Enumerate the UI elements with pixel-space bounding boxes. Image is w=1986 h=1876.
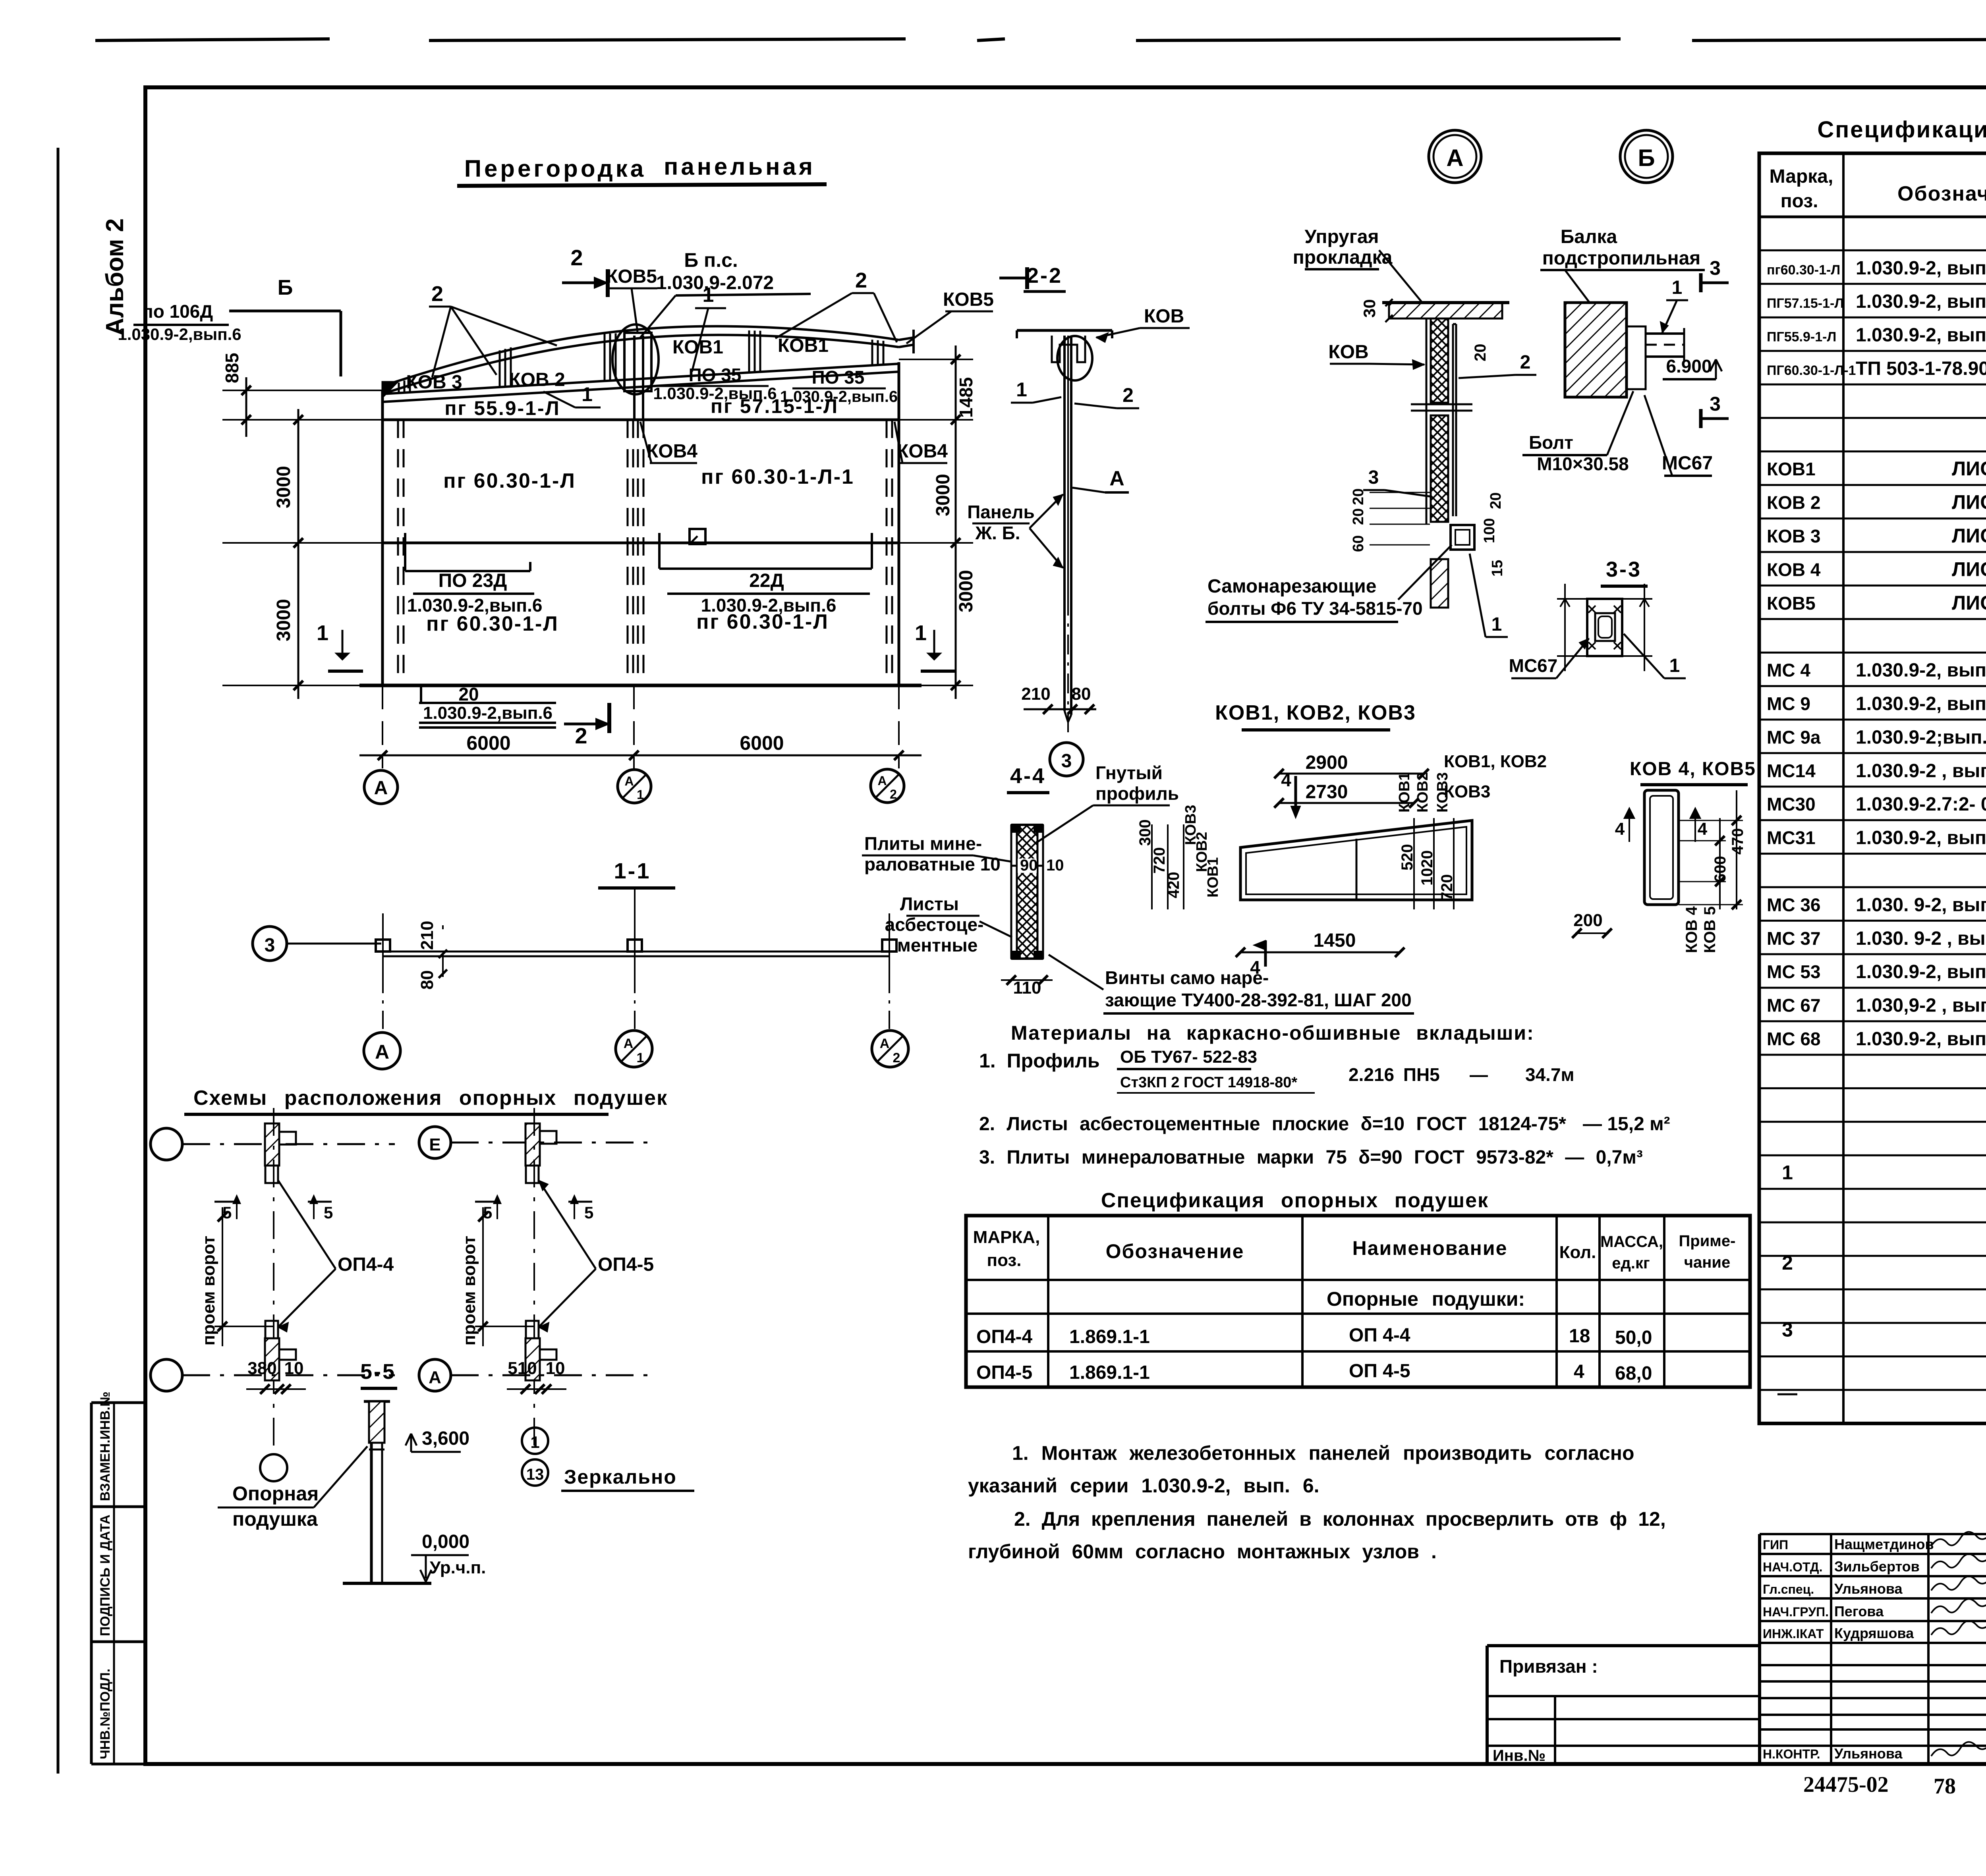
svg-text:20: 20 — [1350, 508, 1367, 525]
svg-text:МС 68: МС 68 — [1767, 1029, 1820, 1049]
elevation dimensions — [222, 345, 977, 804]
svg-text:ОП4-4: ОП4-4 — [976, 1326, 1033, 1347]
svg-text:Альбом 2: Альбом 2 — [101, 218, 129, 336]
svg-text:Ж. Б.: Ж. Б. — [975, 523, 1020, 543]
svg-text:Схемы расположения опорн: Схемы расположения опорных подушек — [193, 1087, 668, 1110]
svg-text:асбестоце-: асбестоце- — [885, 914, 984, 935]
truss bottom chord — [383, 364, 899, 394]
svg-text:ВЗАМЕН.ИНВ.№: ВЗАМЕН.ИНВ.№ — [98, 1392, 113, 1501]
connector МС on panel — [376, 940, 390, 952]
svg-text:3. Плиты минераловатные: 3. Плиты минераловатные марки 75 δ=90 ГО… — [979, 1147, 1643, 1168]
svg-text:4-4: 4-4 — [1010, 764, 1046, 788]
svg-text:ОП 4-4: ОП 4-4 — [1349, 1325, 1410, 1346]
svg-text:ОП4-4: ОП4-4 — [338, 1254, 394, 1275]
connection plan view — [1587, 599, 1622, 656]
scheme 2 (ОП4-5) — [419, 1108, 694, 1491]
svg-text:пг 60.30-1-Л: пг 60.30-1-Л — [443, 469, 576, 492]
svg-text:ПО 35: ПО 35 — [689, 365, 742, 385]
svg-text:380: 380 — [247, 1359, 276, 1378]
svg-text:болты Ф6 ТУ 34-5815-70: болты Ф6 ТУ 34-5815-70 — [1207, 598, 1423, 619]
axis circle А/2 — [871, 769, 904, 803]
svg-text:2: 2 — [431, 282, 443, 306]
svg-text:4: 4 — [1574, 1361, 1584, 1382]
svg-text:ОБ ТУ67- 522-83: ОБ ТУ67- 522-83 — [1120, 1047, 1257, 1067]
elevation drawing: панельная перегородка — [359, 324, 922, 685]
wall strip cross-hatched — [1017, 825, 1037, 959]
svg-text:ТП 503-1-78.90 -КЖ.И.25: ТП 503-1-78.90 -КЖ.И.25 — [1856, 358, 1986, 379]
svg-text:пг 60.30-1-Л: пг 60.30-1-Л — [426, 612, 559, 635]
svg-text:Б: Б — [278, 276, 293, 299]
svg-text:ПОДПИСЬ И ДАТА: ПОДПИСЬ И ДАТА — [98, 1515, 113, 1636]
svg-text:1: 1 — [530, 1433, 539, 1451]
svg-text:Опорные подушки:: Опорные подушки: — [1327, 1288, 1525, 1310]
svg-text:КОВ5: КОВ5 — [606, 266, 657, 287]
svg-text:Инв.№: Инв.№ — [1493, 1747, 1546, 1764]
svg-text:по 106Д: по 106Д — [142, 301, 213, 322]
panel in plan — [383, 951, 889, 953]
svg-text:КОВ 3: КОВ 3 — [1767, 526, 1820, 546]
svg-text:50,0: 50,0 — [1615, 1327, 1652, 1348]
svg-text:подушка: подушка — [232, 1508, 318, 1530]
svg-text:ОП4-5: ОП4-5 — [598, 1254, 654, 1275]
svg-text:прокладка: прокладка — [1293, 247, 1393, 268]
svg-text:КОВ: КОВ — [1144, 306, 1184, 327]
svg-text:Ст3КП 2 ГОСТ 14918-80*: Ст3КП 2 ГОСТ 14918-80* — [1120, 1074, 1297, 1091]
svg-text:НАЧ.ГРУП.: НАЧ.ГРУП. — [1763, 1605, 1829, 1619]
КОВ4 КОВ5 drawing — [1572, 759, 1756, 953]
svg-text:ед.кг: ед.кг — [1612, 1255, 1650, 1272]
svg-text:подстропильная: подстропильная — [1542, 248, 1701, 269]
svg-text:Б: Б — [1638, 145, 1655, 171]
svg-text:МС 37: МС 37 — [1767, 928, 1820, 949]
svg-text:13: 13 — [526, 1466, 544, 1483]
svg-text:Наименование: Наименование — [1352, 1237, 1508, 1259]
circle Б — [1620, 130, 1673, 183]
svg-text:Ульянова: Ульянова — [1834, 1581, 1903, 1597]
svg-text:1: 1 — [1672, 277, 1683, 298]
svg-text:Е: Е — [429, 1135, 440, 1154]
elevation labels — [118, 245, 1027, 748]
bracket ПО 23Д — [404, 533, 406, 571]
svg-text:20: 20 — [1350, 488, 1367, 505]
svg-text:2: 2 — [1782, 1252, 1793, 1274]
svg-text:1: 1 — [1016, 378, 1027, 401]
svg-text:А: А — [1109, 467, 1124, 490]
svg-text:МАРКА,: МАРКА, — [973, 1228, 1040, 1247]
below-frame annotations — [1803, 1771, 1986, 1799]
svg-text:—: — — [1777, 1382, 1797, 1404]
svg-text:1.030.9-2, вып.7, часть 2: 1.030.9-2, вып.7, часть 2 — [1856, 1029, 1986, 1050]
svg-text:проем ворот: проем ворот — [460, 1236, 479, 1346]
svg-text:МС 4: МС 4 — [1767, 660, 1810, 681]
support pads table text — [973, 1228, 1736, 1384]
svg-text:68,0: 68,0 — [1615, 1363, 1652, 1384]
svg-text:3: 3 — [1368, 467, 1379, 488]
svg-text:1.030.9-2, вып.1: 1.030.9-2, вып.1 — [1856, 258, 1986, 279]
svg-text:110: 110 — [1013, 978, 1041, 998]
svg-text:Зеркально: Зеркально — [564, 1466, 677, 1488]
svg-text:КОВ4: КОВ4 — [897, 441, 948, 462]
svg-text:34.7м: 34.7м — [1525, 1064, 1575, 1085]
svg-text:1. Монтаж железобетонных: 1. Монтаж железобетонных панелей произво… — [1012, 1442, 1634, 1464]
svg-text:панельная: панельная — [664, 153, 815, 180]
svg-text:ПО 23Д: ПО 23Д — [439, 570, 507, 591]
svg-text:3000: 3000 — [273, 466, 294, 508]
svg-text:1: 1 — [1491, 614, 1502, 635]
connection plate and beam — [1627, 326, 1646, 389]
connector МС on panel — [882, 940, 896, 952]
svg-text:КОВ 2: КОВ 2 — [509, 369, 565, 390]
axis circle А — [364, 770, 398, 804]
привязан box — [1487, 1646, 1760, 1764]
svg-text:3: 3 — [265, 935, 275, 956]
svg-text:Материалы на каркасно-обш: Материалы на каркасно-обшивные вкладыши: — [1011, 1022, 1534, 1044]
section 2-2 — [967, 264, 1190, 776]
svg-text:А: А — [880, 1036, 890, 1051]
svg-text:885: 885 — [222, 353, 242, 383]
svg-text:Гнутый: Гнутый — [1095, 762, 1163, 783]
svg-text:КОВ 5: КОВ 5 — [1701, 906, 1719, 953]
svg-text:Привязан :: Привязан : — [1499, 1656, 1598, 1677]
svg-text:зающие ТУ400-28-392-81, ШАГ 20: зающие ТУ400-28-392-81, ШАГ 200 — [1105, 990, 1412, 1010]
svg-text:1.869.1-1: 1.869.1-1 — [1069, 1326, 1150, 1347]
svg-text:поз.: поз. — [987, 1251, 1022, 1270]
svg-text:Плиты мине-: Плиты мине- — [864, 833, 982, 854]
svg-text:2: 2 — [893, 1050, 900, 1065]
svg-text:2-2: 2-2 — [1027, 264, 1063, 288]
svg-text:А: А — [1446, 145, 1463, 171]
svg-text:24475-02: 24475-02 — [1803, 1772, 1889, 1797]
svg-text:Н.КОНТР.: Н.КОНТР. — [1763, 1747, 1820, 1761]
svg-text:1.030.9-2, вып.7, часть 2: 1.030.9-2, вып.7, часть 2 — [1856, 828, 1986, 849]
svg-text:15: 15 — [1489, 560, 1506, 577]
signature table grid — [1760, 1534, 1986, 1764]
main title — [457, 153, 827, 186]
detail А: упругая прокладка — [1206, 130, 1536, 637]
svg-text:4: 4 — [1698, 819, 1708, 839]
truss top chord arc — [383, 326, 899, 386]
svg-text:КОВ3: КОВ3 — [1434, 772, 1451, 813]
svg-text:20: 20 — [1488, 492, 1504, 509]
svg-text:20: 20 — [1472, 344, 1489, 362]
support pads table grid — [966, 1216, 1750, 1387]
svg-text:Б п.с.: Б п.с. — [684, 249, 738, 271]
svg-text:1: 1 — [1782, 1162, 1793, 1184]
big table rows text — [1767, 222, 1986, 1418]
svg-text:Панель: Панель — [967, 502, 1035, 522]
svg-text:А: А — [374, 778, 388, 799]
svg-text:поз.: поз. — [1781, 191, 1818, 212]
svg-text:МС31: МС31 — [1767, 828, 1816, 848]
svg-text:3: 3 — [1061, 751, 1072, 772]
circle А — [1429, 130, 1481, 183]
signature table text — [1763, 1532, 1986, 1762]
svg-text:А: А — [624, 774, 634, 788]
svg-text:Болт: Болт — [1529, 432, 1573, 453]
svg-text:3000: 3000 — [933, 474, 954, 516]
svg-text:КОВ1: КОВ1 — [1396, 772, 1413, 813]
svg-text:Винты само наре-: Винты само наре- — [1105, 967, 1269, 988]
truss web posts — [398, 382, 400, 393]
svg-text:КОВ5: КОВ5 — [943, 289, 994, 310]
svg-text:3,600: 3,600 — [422, 1428, 469, 1449]
svg-text:ЧНВ.№ПОДЛ.: ЧНВ.№ПОДЛ. — [98, 1669, 113, 1759]
svg-text:10: 10 — [1046, 857, 1064, 874]
beam cross-section hatched — [1565, 303, 1627, 397]
axis circle 3 below section 2-2 — [1050, 743, 1083, 776]
svg-text:3000: 3000 — [273, 599, 294, 641]
svg-text:КОВ 3: КОВ 3 — [406, 372, 462, 393]
svg-text:ПГ55.9-1-Л: ПГ55.9-1-Л — [1767, 330, 1836, 345]
svg-text:КОВ 4: КОВ 4 — [1767, 559, 1821, 580]
svg-text:5: 5 — [324, 1203, 333, 1222]
sheet top edge dashed line — [95, 39, 1986, 41]
svg-text:Гл.спец.: Гл.спец. — [1763, 1582, 1814, 1596]
svg-text:2. Листы асбестоцементные: 2. Листы асбестоцементные плоские δ=10 Г… — [979, 1114, 1566, 1135]
svg-text:210: 210 — [417, 921, 437, 950]
svg-text:1.030.9-2,вып.6: 1.030.9-2,вып.6 — [701, 595, 837, 616]
left sheet edge line — [57, 148, 60, 1774]
svg-text:80: 80 — [417, 970, 437, 990]
svg-text:Балка: Балка — [1561, 226, 1617, 247]
svg-text:10: 10 — [284, 1359, 304, 1378]
svg-text:1: 1 — [637, 787, 644, 802]
left stamp boxes — [91, 1392, 145, 1764]
big specification table grid — [1759, 153, 1986, 1423]
svg-text:КОВ1: КОВ1 — [778, 335, 829, 356]
svg-text:МС 67: МС 67 — [1767, 995, 1820, 1016]
svg-text:1.030. 9-2, вып.7, часть2: 1.030. 9-2, вып.7, часть2 — [1856, 894, 1986, 915]
svg-text:3: 3 — [1782, 1319, 1793, 1341]
svg-text:ЛИСТ 50: ЛИСТ 50 — [1952, 558, 1986, 580]
svg-text:1.030. 9-2 , вып.7, часть2: 1.030. 9-2 , вып.7, часть2 — [1856, 928, 1986, 949]
svg-text:Нащметдинов: Нащметдинов — [1834, 1536, 1934, 1552]
svg-text:ЛИСТ 50: ЛИСТ 50 — [1952, 491, 1986, 513]
svg-text:90: 90 — [1020, 857, 1038, 874]
svg-text:— 15,2 м²: — 15,2 м² — [1583, 1114, 1670, 1135]
section 1-1 — [253, 858, 908, 1069]
svg-text:КОВ5: КОВ5 — [1767, 593, 1816, 614]
svg-text:ПО 35: ПО 35 — [812, 367, 865, 388]
svg-text:Обозначение: Обозначение — [1106, 1240, 1244, 1262]
profile outline — [1240, 820, 1472, 900]
materials notes — [979, 1022, 1670, 1168]
svg-text:КОВ1, КОВ2: КОВ1, КОВ2 — [1444, 752, 1547, 771]
svg-text:470: 470 — [1729, 828, 1746, 855]
svg-text:1.030.9-2.072: 1.030.9-2.072 — [656, 272, 774, 293]
svg-text:Спецификация элементов п: Спецификация элементов панельной перегор… — [1817, 117, 1986, 143]
svg-text:Перегородка: Перегородка — [464, 155, 646, 182]
svg-text:1.030.9-2, вып.1: 1.030.9-2, вып.1 — [1856, 291, 1986, 312]
svg-text:2: 2 — [1520, 352, 1531, 373]
svg-text:1: 1 — [637, 1050, 644, 1065]
embedded detail square — [690, 529, 705, 544]
svg-text:Упругая: Упругая — [1304, 226, 1379, 247]
svg-text:1.030.9-2,вып.6: 1.030.9-2,вып.6 — [118, 325, 241, 344]
svg-text:10: 10 — [546, 1359, 565, 1378]
svg-text:1.030.9-2;вып.7, часть2: 1.030.9-2;вып.7, часть2 — [1856, 727, 1986, 748]
svg-text:30: 30 — [1360, 299, 1379, 318]
svg-text:4: 4 — [1281, 770, 1291, 790]
svg-text:МС14: МС14 — [1767, 760, 1816, 781]
svg-text:1: 1 — [582, 383, 593, 405]
svg-text:пг 55.9-1-Л: пг 55.9-1-Л — [444, 397, 560, 419]
joint at axis А/1 — [612, 324, 659, 394]
svg-text:А: А — [624, 1036, 634, 1051]
svg-text:указаний серии 1.030.9-2: указаний серии 1.030.9-2, вып. 6. — [968, 1475, 1319, 1497]
svg-text:МС 9: МС 9 — [1767, 693, 1810, 714]
svg-text:глубиной 60мм согласно: глубиной 60мм согласно монтажных узлов . — [968, 1540, 1437, 1563]
svg-text:КОВ1: КОВ1 — [1205, 857, 1221, 897]
section 4-4 — [862, 762, 1414, 1013]
svg-text:чание: чание — [1684, 1254, 1730, 1271]
svg-text:4: 4 — [1250, 957, 1260, 978]
svg-text:Обозначение: Обозначение — [1897, 182, 1986, 205]
svg-text:3-3: 3-3 — [1606, 558, 1642, 581]
panel with elastic pad — [1431, 318, 1448, 403]
svg-text:пг 60.30-1-Л-1: пг 60.30-1-Л-1 — [701, 465, 854, 488]
svg-text:4: 4 — [1615, 819, 1625, 839]
svg-text:ПГ60.30-1-Л-1: ПГ60.30-1-Л-1 — [1767, 363, 1856, 378]
svg-text:М10×30.58: М10×30.58 — [1537, 454, 1629, 474]
svg-text:МС67: МС67 — [1509, 655, 1558, 676]
svg-text:Спецификация опорных подуш: Спецификация опорных подушек — [1101, 1189, 1489, 1212]
svg-text:1.030.9-2, вып.7, часть 2: 1.030.9-2, вып.7, часть 2 — [1856, 693, 1986, 714]
svg-text:2730: 2730 — [1306, 782, 1348, 803]
svg-text:КОВ2: КОВ2 — [1414, 772, 1431, 813]
svg-text:1.030.9-2, вып.7, часть 2: 1.030.9-2, вып.7, часть 2 — [1856, 660, 1986, 681]
svg-text:КОВ4: КОВ4 — [647, 441, 697, 462]
svg-text:1.869.1-1: 1.869.1-1 — [1069, 1362, 1150, 1383]
svg-text:Опорная: Опорная — [232, 1482, 319, 1505]
svg-text:МС 53: МС 53 — [1767, 961, 1820, 982]
svg-text:1: 1 — [1669, 655, 1680, 676]
svg-text:1: 1 — [703, 284, 714, 307]
svg-text:3000: 3000 — [956, 570, 977, 612]
svg-text:Самонарезающие: Самонарезающие — [1207, 576, 1376, 597]
svg-text:ИНЖ.IКАТ: ИНЖ.IКАТ — [1763, 1627, 1824, 1641]
svg-text:210: 210 — [1021, 684, 1050, 704]
svg-text:6.900: 6.900 — [1666, 356, 1712, 376]
svg-text:КОВ1: КОВ1 — [1767, 459, 1816, 479]
svg-text:—: — — [1470, 1064, 1488, 1085]
svg-text:пг 57.15-1-Л: пг 57.15-1-Л — [711, 395, 838, 417]
svg-text:2: 2 — [570, 245, 583, 270]
svg-text:Кудряшова: Кудряшова — [1834, 1625, 1914, 1641]
axis circle 3 — [253, 926, 287, 961]
svg-text:3: 3 — [1710, 393, 1721, 415]
svg-text:5: 5 — [584, 1203, 593, 1222]
bolt connection МС — [1451, 525, 1474, 550]
mounting notes — [968, 1442, 1666, 1563]
connector МС on panel — [628, 940, 642, 952]
svg-text:А: А — [877, 774, 887, 788]
svg-text:Пегова: Пегова — [1834, 1603, 1884, 1619]
columns (dashed) — [397, 420, 399, 683]
svg-text:510: 510 — [508, 1359, 537, 1378]
svg-text:ЛИСТ 50: ЛИСТ 50 — [1952, 592, 1986, 614]
svg-text:ОП4-5: ОП4-5 — [976, 1362, 1032, 1383]
svg-text:600: 600 — [1712, 856, 1729, 882]
bracket 22Д — [658, 533, 661, 569]
svg-text:1.030.9-2, вып.1: 1.030.9-2, вып.1 — [1856, 325, 1986, 346]
svg-text:80: 80 — [1072, 684, 1091, 704]
svg-text:Ульянова: Ульянова — [1834, 1745, 1903, 1762]
svg-text:1-1: 1-1 — [614, 858, 651, 883]
svg-text:1.030.9-2, вып.7, часть 2: 1.030.9-2, вып.7, часть 2 — [1856, 961, 1986, 982]
svg-text:профиль: профиль — [1095, 783, 1179, 804]
svg-text:Марка,: Марка, — [1770, 166, 1833, 187]
section 5-5 — [218, 1360, 486, 1583]
ground line — [343, 1582, 431, 1585]
label 20 bottom — [420, 685, 422, 702]
svg-text:2900: 2900 — [1306, 752, 1348, 773]
svg-text:пг60.30-1-Л: пг60.30-1-Л — [1767, 262, 1840, 278]
wall panel outline — [383, 419, 899, 421]
svg-text:КОВ 4, КОВ5: КОВ 4, КОВ5 — [1630, 759, 1756, 780]
svg-text:Кол.: Кол. — [1559, 1243, 1596, 1262]
scheme 1 (ОП4-4) — [151, 1108, 395, 1481]
svg-text:ментные: ментные — [897, 935, 978, 955]
ceiling slab — [1389, 303, 1502, 318]
svg-text:МС 36: МС 36 — [1767, 894, 1820, 915]
svg-text:ОП 4-5: ОП 4-5 — [1349, 1361, 1410, 1382]
svg-text:2.216 ПН5: 2.216 ПН5 — [1348, 1064, 1440, 1085]
svg-text:НАЧ.ОТД.: НАЧ.ОТД. — [1763, 1560, 1822, 1574]
big table header — [1770, 166, 1986, 214]
svg-text:Листы: Листы — [900, 894, 959, 914]
svg-text:20: 20 — [458, 684, 479, 704]
svg-text:78: 78 — [1934, 1774, 1956, 1799]
svg-text:2: 2 — [1122, 384, 1134, 406]
detail Б: балка подстропильная — [1522, 130, 1729, 476]
svg-text:1485: 1485 — [956, 377, 976, 418]
svg-text:ГИП: ГИП — [1763, 1538, 1788, 1552]
svg-text:0,000: 0,000 — [422, 1531, 469, 1552]
svg-text:2: 2 — [890, 787, 897, 801]
svg-text:КОВ 4: КОВ 4 — [1683, 906, 1700, 953]
detail 3-3 — [1509, 558, 1686, 678]
svg-text:КОВ: КОВ — [1328, 342, 1368, 363]
svg-text:ЛИСТ 50: ЛИСТ 50 — [1952, 525, 1986, 547]
svg-text:1.030.9-2.7:2- 0260 -03: 1.030.9-2.7:2- 0260 -03 — [1856, 794, 1986, 815]
svg-text:1.030.9-2,вып.6: 1.030.9-2,вып.6 — [407, 595, 543, 616]
svg-text:5-5: 5-5 — [360, 1360, 396, 1384]
svg-text:18: 18 — [1569, 1326, 1590, 1347]
svg-text:Зильбертов: Зильбертов — [1834, 1558, 1920, 1575]
svg-text:1. Профиль: 1. Профиль — [979, 1050, 1100, 1072]
svg-text:А: А — [375, 1041, 389, 1063]
svg-text:1450: 1450 — [1314, 930, 1356, 951]
svg-text:МС 9а: МС 9а — [1767, 727, 1821, 747]
bar outline — [1644, 790, 1679, 905]
axis circles bottom of 1-1 — [364, 1033, 400, 1069]
svg-text:3: 3 — [1710, 257, 1721, 279]
svg-text:Ур.ч.п.: Ур.ч.п. — [430, 1558, 486, 1577]
svg-text:проем ворот: проем ворот — [199, 1236, 218, 1346]
svg-text:2: 2 — [855, 268, 867, 292]
svg-text:1.030.9-2,вып.6: 1.030.9-2,вып.6 — [423, 703, 553, 723]
svg-text:2. Для крепления панеле: 2. Для крепления панелей в колоннах прос… — [1014, 1508, 1666, 1530]
svg-text:1.030.9-2 , вып.7, часть2: 1.030.9-2 , вып.7, часть2 — [1856, 760, 1986, 782]
svg-text:ЛИСТ 50: ЛИСТ 50 — [1952, 457, 1986, 480]
svg-text:А: А — [429, 1368, 441, 1387]
axis circle А/1 — [618, 770, 651, 803]
svg-text:60: 60 — [1350, 535, 1367, 552]
svg-text:1: 1 — [915, 621, 927, 645]
svg-text:1.030,9-2 , вып.7, чАсть 2: 1.030,9-2 , вып.7, чАсть 2 — [1856, 995, 1986, 1016]
svg-text:6000: 6000 — [466, 732, 510, 754]
